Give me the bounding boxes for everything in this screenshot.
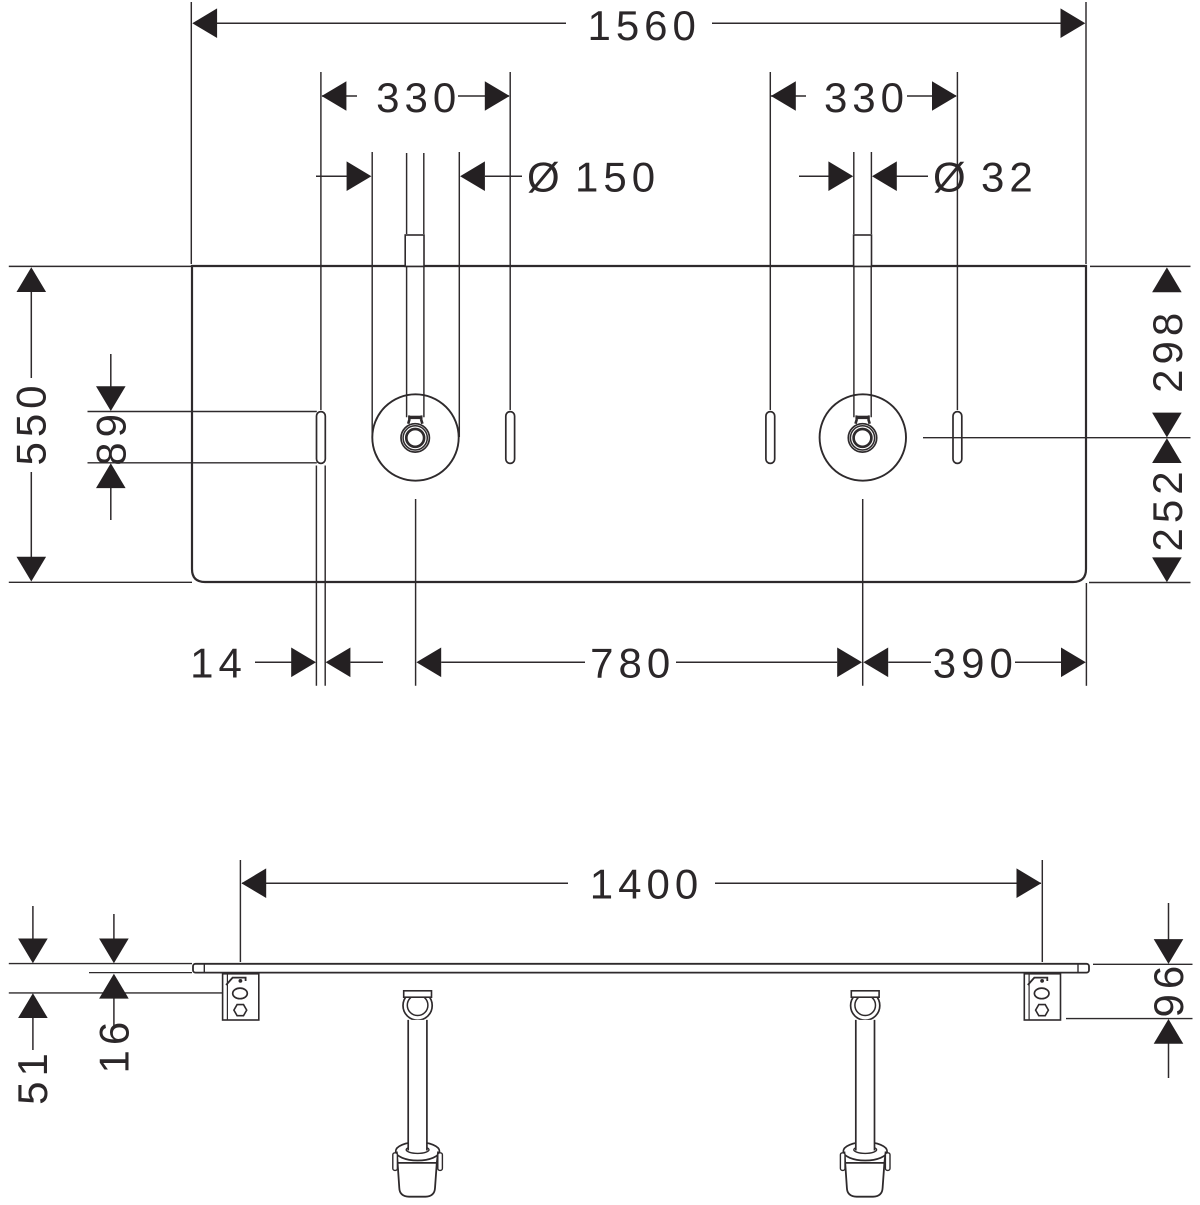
D32 stub right [897,175,929,177]
svg-text:Ø: Ø [933,154,971,201]
svg-text:550: 550 [7,380,54,465]
550 leader bottom [9,581,192,583]
16 arrow top [113,914,115,940]
1400 dimension line [242,882,568,884]
51 leader bottom [9,992,223,994]
D32 arrows [828,161,853,191]
left faucet hole group (D150 circle) [372,394,458,480]
1560 extension line left [190,2,192,264]
298 leader top right [1090,265,1191,267]
1560 arrows [192,8,217,38]
D150 stub left [316,175,348,177]
svg-text:252: 252 [1144,466,1191,551]
svg-text:51: 51 [9,1048,56,1105]
89 arrow bottom [110,486,112,520]
330L extension line right [509,72,511,410]
svg-text:150: 150 [575,154,660,201]
16 arrow bottom [113,998,115,1027]
330R extension line right [956,72,958,410]
right centre line below circle [862,499,864,686]
svg-text:14: 14 [190,640,247,687]
left tap tab on back edge [405,235,424,266]
slab end joint left [203,964,205,973]
390 extension line right [1085,583,1087,686]
89 arrow top [110,354,112,389]
svg-text:330: 330 [376,74,461,121]
96 leader bottom [1066,1018,1193,1020]
washbasin slab (front view) [193,964,1089,973]
D150 arrows [347,161,372,191]
right faucet hole group (D32 drain) [820,394,906,480]
svg-text:390: 390 [933,640,1018,687]
330L arrows [322,81,347,111]
390 arrows [863,648,888,678]
D32 extension line right [870,152,872,234]
16 leader slab bottom [89,972,192,974]
51 arrow top [32,906,34,940]
780 arrows [416,648,441,678]
slab end joint right [1077,964,1079,973]
fixing slot 3 [766,412,775,464]
D150 stub right [485,175,522,177]
51 arrow bottom [32,1017,34,1050]
1400 extension line left [239,860,241,962]
D32 extension line left [853,152,855,234]
svg-text:780: 780 [590,640,675,687]
D32 stub left [799,175,829,177]
252 leader bottom right [1089,582,1191,584]
svg-text:16: 16 [91,1017,138,1074]
svg-text:96: 96 [1145,961,1192,1018]
drain trap left [403,991,432,1020]
96 leader top [1093,963,1193,965]
drain trap right [851,991,880,1020]
left tap channel upper lines [406,153,408,234]
1560 dimension line [194,22,567,24]
330L extension line left [320,72,322,410]
89 leader top [88,411,317,413]
svg-text:330: 330 [824,74,909,121]
left centre line below circle [415,499,417,686]
550 dimension line [30,292,32,379]
1400 arrows [241,868,266,898]
96 arrow top [1168,903,1170,940]
svg-text:1400: 1400 [590,861,703,908]
14 arrows [291,648,316,678]
slot tangent ext lines [315,466,317,686]
550 leader top [9,265,192,267]
51-16 leader top [9,963,192,965]
330R extension line left [769,72,771,410]
wall bracket left [223,974,259,1020]
svg-text:298: 298 [1144,308,1191,393]
svg-text:1560: 1560 [587,2,700,49]
89 leader bottom [88,462,317,464]
D150 tangent line left [371,152,373,437]
330R dimension line [771,95,806,97]
1400 extension line right [1041,860,1043,962]
298 arrow top [1152,267,1182,292]
330L dimension line [322,95,357,97]
390 dimension line [888,661,931,663]
330R arrows [771,81,796,111]
fixing slot 2 [506,412,515,464]
D150 tangent line right [458,152,460,437]
252 arrow bottom [1152,557,1182,582]
right tap tab on back edge [854,235,872,266]
fixing slot 4 [953,412,962,464]
780 dimension line [441,661,585,663]
252 arrow top [1152,438,1182,463]
svg-text:89: 89 [87,409,134,466]
1560 extension line right [1085,2,1087,264]
550 arrows [17,267,47,292]
washbasin outline (plan view 1560x550) [192,266,1086,582]
svg-text:Ø: Ø [527,154,565,201]
centre leader right [923,437,1191,439]
fixing slot 1 [317,412,326,464]
14 stub right [351,661,384,663]
14 dimension line [255,661,292,663]
wall bracket right [1024,974,1060,1020]
298 arrow bottom [1152,413,1182,438]
96 arrow bottom [1168,1043,1170,1078]
svg-text:32: 32 [981,154,1038,201]
